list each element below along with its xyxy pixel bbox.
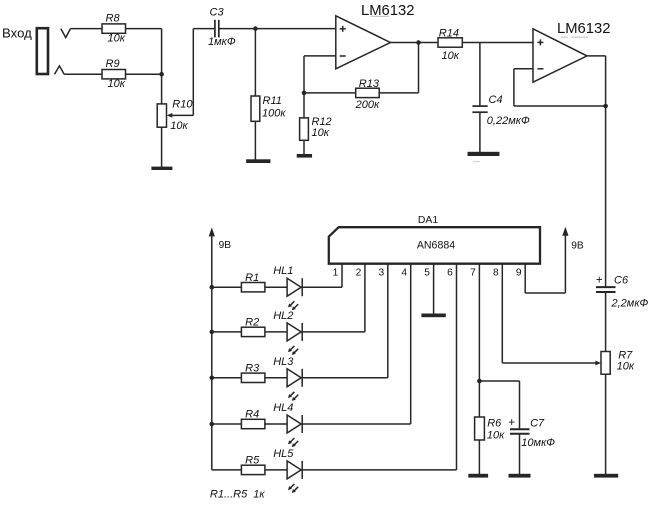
wire R10 wiper to C3 — [172, 114, 193, 116]
wire HL1 to pin — [302, 286, 342, 288]
wire node to R13 — [304, 92, 356, 94]
svg-text:HL5: HL5 — [273, 448, 294, 460]
artifact under U2 label — [561, 36, 568, 38]
connector X1 (input jack) — [37, 28, 48, 74]
wire R2 to HL2 — [265, 331, 287, 333]
wire R14 to op-amp U2 — [462, 42, 533, 44]
svg-text:DA1: DA1 — [418, 215, 438, 226]
LED HL5 — [287, 461, 301, 479]
resistor R11 — [251, 96, 260, 121]
artifact under U1 label — [371, 15, 390, 17]
wire C6 to R7 — [605, 292, 607, 352]
wire R4 to HL4 — [265, 423, 287, 425]
wire HL3 to pin — [302, 377, 388, 379]
wire node down to R11 — [254, 29, 256, 96]
resistor R2 — [241, 327, 265, 336]
svg-text:+: + — [596, 274, 603, 286]
svg-text:10к: 10к — [312, 127, 330, 139]
LED HL4 — [287, 415, 301, 433]
wire pin 6 to HL5 — [456, 264, 458, 470]
svg-text:HL1: HL1 — [273, 265, 293, 277]
wire U1 inverting input feedback — [304, 55, 336, 57]
svg-text:R11: R11 — [263, 95, 282, 107]
wire pin 2 — [364, 264, 366, 332]
svg-text:HL4: HL4 — [273, 402, 293, 414]
ground (C7) — [509, 474, 531, 478]
wire R10 bottom to ground — [161, 127, 163, 167]
wire U1 output to R14 — [390, 42, 438, 44]
resistor R8 — [102, 24, 126, 33]
ground (R7) — [594, 474, 618, 478]
ground (C4) — [468, 152, 500, 156]
svg-text:HL3: HL3 — [273, 356, 294, 368]
node junction R8/R9/R10 — [159, 72, 164, 77]
potentiometer R7 — [601, 352, 610, 375]
ground (pin 5) — [421, 314, 445, 318]
node junction C3/R11 — [253, 26, 258, 31]
svg-text:3: 3 — [378, 268, 384, 279]
wire HL2 to pin — [302, 331, 365, 333]
svg-text:R1...R5 1к: R1...R5 1к — [210, 488, 266, 500]
wire U2 output — [587, 55, 606, 57]
resistor R12 — [303, 93, 305, 118]
svg-text:8: 8 — [493, 268, 499, 279]
svg-text:10к: 10к — [442, 50, 460, 62]
capacitor C7 (polarized) — [510, 428, 530, 430]
wire pin 1 — [341, 264, 343, 288]
capacitor C4 — [472, 105, 487, 107]
wire tip contact to R8 — [71, 28, 103, 30]
wire HL4 to pin — [302, 423, 411, 425]
resistor R6 — [475, 417, 485, 440]
svg-text:2,2мкФ: 2,2мкФ — [611, 298, 649, 310]
LED HL1 — [287, 278, 301, 296]
node rail row 3 — [210, 376, 215, 381]
wire U2 inverting input feedback loop — [514, 68, 533, 70]
svg-text:R13: R13 — [359, 78, 380, 90]
node junction U1 output/R13 — [416, 40, 421, 45]
svg-text:R10: R10 — [172, 99, 193, 111]
svg-text:R9: R9 — [106, 58, 120, 70]
wire sleeve contact to R9 — [64, 73, 102, 75]
wire pin 4 — [410, 264, 412, 424]
wire R1 to HL1 — [265, 286, 287, 288]
svg-text:9: 9 — [516, 268, 522, 279]
svg-text:R4: R4 — [245, 409, 259, 421]
svg-text:10мкФ: 10мкФ — [521, 437, 555, 449]
svg-text:7: 7 — [470, 268, 476, 279]
jack tip contact — [61, 29, 71, 38]
svg-text:4: 4 — [401, 268, 407, 279]
resistor R9 — [102, 70, 126, 79]
wire rail to R3 — [212, 377, 242, 379]
ground (R11) — [246, 159, 270, 163]
svg-text:R3: R3 — [245, 363, 260, 375]
potentiometer R10 — [157, 104, 166, 127]
wire node to C7 — [479, 380, 519, 382]
svg-text:1: 1 — [333, 268, 339, 279]
resistor R1 — [241, 283, 265, 292]
node junction pin7/R6/C7 — [477, 379, 482, 384]
capacitor C3 — [214, 20, 216, 38]
wire down to C4 — [479, 43, 481, 107]
wire pin 3 — [387, 264, 389, 378]
wire rail to R2 — [212, 331, 242, 333]
svg-text:R14: R14 — [439, 27, 459, 39]
wire R5 to HL5 — [265, 469, 287, 471]
resistor R3 — [241, 373, 265, 382]
svg-text:6: 6 — [447, 268, 453, 279]
svg-text:R8: R8 — [106, 13, 121, 25]
capacitor C6 (polarized) — [596, 286, 616, 288]
svg-text:10к: 10к — [617, 361, 635, 373]
svg-text:1мкФ: 1мкФ — [208, 36, 236, 48]
svg-text:10к: 10к — [170, 120, 188, 132]
svg-text:R7: R7 — [618, 349, 633, 361]
svg-text:C3: C3 — [210, 6, 225, 18]
node rail row 4 — [210, 422, 215, 427]
svg-text:C6: C6 — [614, 274, 629, 286]
wire R13 to output node — [379, 92, 418, 94]
ground (R6) — [468, 474, 488, 478]
svg-text:R2: R2 — [245, 317, 259, 329]
wire pin 5 to ground — [433, 264, 435, 314]
power rail right 9V arrow — [562, 227, 568, 236]
resistor R5 — [241, 465, 265, 474]
wire rail to R1 — [212, 286, 242, 288]
svg-text:HL2: HL2 — [273, 310, 293, 322]
LED HL3 — [287, 369, 301, 387]
svg-text:10к: 10к — [108, 33, 126, 45]
wire R12 to ground — [303, 140, 305, 154]
wire R6 to ground — [478, 440, 480, 474]
node junction R12/R13/feedback — [302, 91, 307, 96]
svg-text:2: 2 — [356, 268, 362, 279]
node rail row 1 — [210, 285, 215, 290]
svg-text:200к: 200к — [355, 99, 380, 111]
wire rail to R5 — [212, 469, 242, 471]
node junction U2 output/feedback — [603, 104, 608, 109]
wire R11 to ground — [254, 121, 256, 159]
svg-text:C7: C7 — [530, 417, 545, 429]
IC DA1 AN6884 body — [329, 227, 540, 264]
svg-text:10к: 10к — [487, 429, 505, 441]
wire R7 to ground — [605, 374, 607, 474]
wire C4 to ground — [479, 112, 481, 152]
svg-text:R1: R1 — [245, 272, 259, 284]
svg-text:AN6884: AN6884 — [417, 239, 455, 251]
LED HL2 — [287, 323, 301, 341]
wire pin 8 to R7 wiper — [501, 264, 503, 363]
svg-text:100к: 100к — [262, 108, 286, 120]
artifact dash below C4 ground — [473, 161, 480, 163]
svg-text:Вход: Вход — [2, 26, 32, 41]
node rail row 2 — [210, 330, 215, 335]
wire HL5 to pin — [302, 469, 456, 471]
resistor R4 — [241, 419, 265, 428]
svg-text:R6: R6 — [487, 417, 502, 429]
wire rail to R4 — [212, 423, 242, 425]
wire output node down to C6 — [605, 106, 607, 287]
wire pin 7 to R6/C7 — [478, 264, 480, 417]
svg-text:C4: C4 — [489, 94, 503, 106]
ground (R10) — [151, 167, 172, 170]
svg-text:9В: 9В — [571, 240, 584, 251]
op-amp U1 (LM6132 first half) — [336, 16, 391, 69]
svg-text:10к: 10к — [108, 78, 126, 90]
svg-text:0,22мкФ: 0,22мкФ — [487, 115, 530, 127]
svg-text:+: + — [508, 417, 515, 429]
wire pin 9 to 9V — [524, 264, 526, 293]
resistor R14 — [438, 38, 462, 47]
wire R3 to HL3 — [265, 377, 287, 379]
wire C3 to op-amp noninverting input — [219, 28, 336, 30]
wire node down to R10 — [161, 74, 163, 104]
svg-text:9В: 9В — [219, 240, 232, 251]
ground (R12) — [297, 154, 312, 158]
resistor R13 — [356, 88, 380, 97]
jack sleeve contact — [55, 66, 65, 74]
svg-text:R5: R5 — [245, 455, 260, 467]
wire R8 to node, down to R9 node — [126, 28, 162, 30]
wire R9 to node — [126, 73, 162, 75]
svg-text:LM6132: LM6132 — [557, 21, 610, 37]
power rail left 9V arrow — [209, 227, 215, 236]
svg-text:5: 5 — [424, 268, 430, 279]
op-amp U2 (LM6132 second half) — [533, 29, 587, 82]
wire C7 to ground — [519, 434, 521, 474]
